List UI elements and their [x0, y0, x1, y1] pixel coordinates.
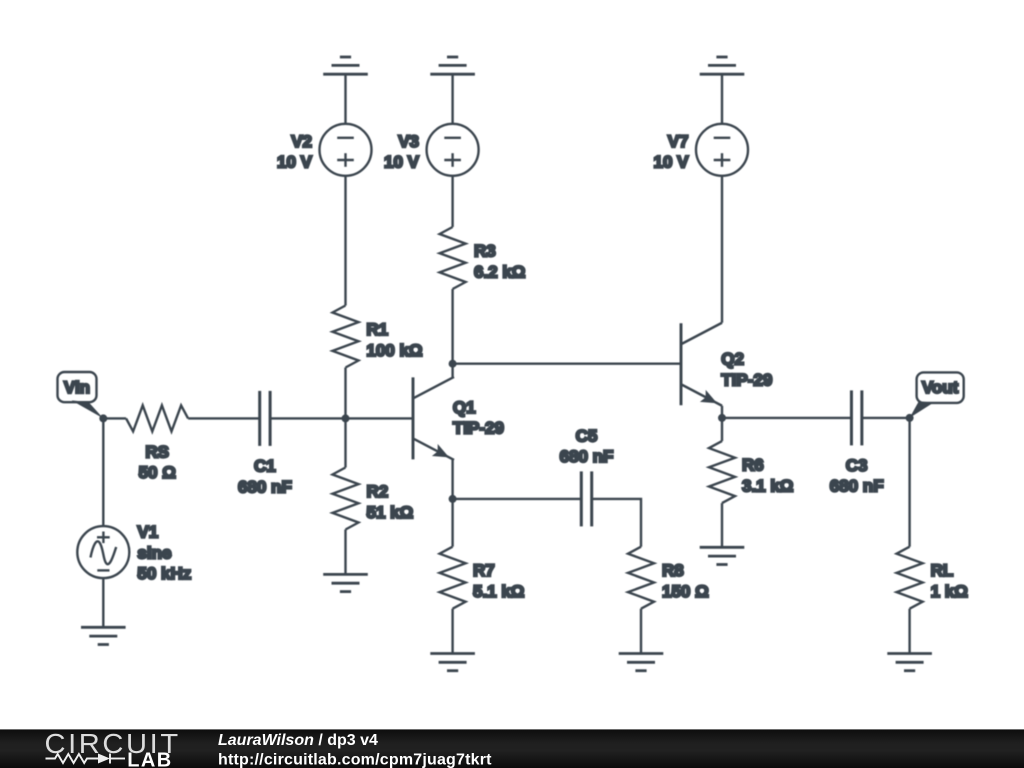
voltage source V1 (sine) — [77, 526, 129, 578]
resistor R7 — [440, 547, 466, 609]
ground (below R6) — [700, 547, 745, 564]
svg-text:LAB: LAB — [127, 749, 172, 768]
wire R2 to ground — [344, 530, 346, 575]
wire V1 to ground — [102, 578, 104, 627]
ground (above V2) — [323, 57, 368, 74]
voltage source V2 — [320, 124, 372, 176]
ground (above V7) — [700, 57, 745, 74]
node Vin junction — [99, 414, 107, 422]
voltage source V7 — [696, 124, 748, 176]
node Vin flag — [58, 372, 97, 402]
ground (below R8) — [619, 654, 664, 671]
wire node A to Q2 base — [453, 363, 681, 365]
ground (above V3) — [430, 57, 475, 74]
node Vout junction — [906, 414, 914, 422]
capacitor C3 — [851, 390, 861, 445]
resistor RL — [897, 547, 923, 609]
ground (below R7) — [430, 654, 475, 671]
wire V2 ground to V2 top — [344, 74, 346, 124]
wire node D to C3 — [722, 417, 851, 419]
wire V2 to R1 — [344, 176, 346, 306]
wire Vin node to RS — [103, 417, 126, 419]
wire node C to C5 — [453, 498, 582, 500]
wire R3 to node A — [451, 289, 453, 364]
capacitor C1 — [260, 391, 270, 446]
wire C1 to Q1 base — [270, 417, 413, 419]
svg-text:LauraWilson / dp3 v4: LauraWilson / dp3 v4 — [218, 732, 378, 749]
node D junction — [718, 414, 726, 422]
ground (below V1) — [81, 627, 126, 644]
wire Q1 emitter to node C — [451, 460, 453, 499]
wire V3 to R3 — [451, 176, 453, 227]
wire RS to C1 — [188, 417, 260, 419]
wire R1 to node B — [344, 368, 346, 419]
wire V7 ground to V7 top — [721, 74, 723, 124]
resistor R3 — [440, 227, 466, 289]
resistor R1 — [333, 306, 359, 368]
wire Q1 collector to node A — [451, 364, 453, 377]
ground (below RL) — [887, 654, 932, 671]
node Vout flag — [917, 372, 964, 403]
wire R7 to ground — [451, 609, 453, 654]
node A junction — [449, 360, 457, 368]
wire node C to R7 — [451, 499, 453, 547]
svg-text:http://circuitlab.com/cpm7juag: http://circuitlab.com/cpm7juag7tkrt — [218, 751, 492, 768]
resistor R6 — [709, 441, 735, 503]
wire V3 ground to V3 top — [451, 74, 453, 124]
wire Vin to V1 — [102, 418, 104, 526]
node C junction — [449, 495, 457, 503]
CircuitLab logo squiggle (resistor + diode) — [46, 754, 126, 764]
wire V7 to Q2 collector — [721, 176, 723, 323]
resistor R8 — [628, 547, 654, 609]
wire C3 to Vout node — [862, 417, 910, 419]
wire C5 to R8 — [592, 499, 641, 547]
resistor R2 — [333, 468, 359, 530]
transistor Q1 — [413, 377, 454, 460]
wire node D to R6 — [721, 418, 723, 441]
node B junction — [342, 414, 350, 422]
wire node B to R2 — [344, 418, 346, 467]
voltage source V3 — [427, 124, 479, 176]
capacitor C5 — [581, 471, 591, 526]
wire Q2 emitter to node D — [721, 406, 723, 418]
wire Vout node to RL — [908, 418, 910, 547]
resistor RS — [126, 405, 188, 431]
ground (below R2) — [323, 574, 368, 591]
wire R8 to ground — [640, 609, 642, 654]
wire R6 to ground — [721, 503, 723, 547]
transistor Q2 — [681, 323, 722, 406]
wire RL to ground — [908, 609, 910, 654]
